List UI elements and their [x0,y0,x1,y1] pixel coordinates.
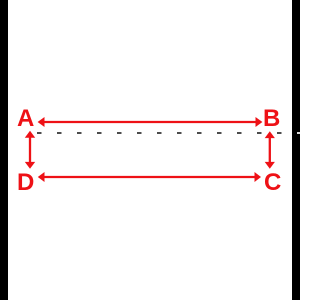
svg-text:B: B [263,105,280,132]
svg-text:D: D [17,169,34,196]
arrow AB (top horizontal double arrow) [38,117,263,127]
svg-text:C: C [264,169,281,196]
svg-text:A: A [17,105,34,132]
arrow DC (bottom horizontal double arrow) [38,172,261,182]
arrow AD (left vertical double arrow) [25,131,35,169]
left black border bar [0,0,8,300]
right black border bar [292,0,300,300]
arrow BC (right vertical double arrow) [265,131,275,169]
dotted reference line [37,132,292,134]
dotted line dash on right bar [297,132,300,134]
